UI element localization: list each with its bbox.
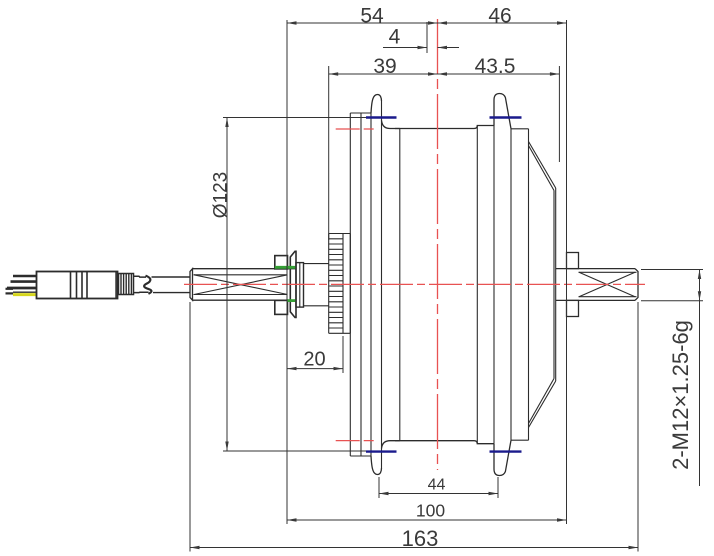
right flange rim top edge <box>511 128 529 130</box>
drum top edge <box>395 128 474 130</box>
dimension line 46 <box>438 22 567 24</box>
extension line 4 tick <box>426 22 428 53</box>
drum right step top <box>474 126 494 129</box>
right axle thread cross 1 <box>579 272 635 296</box>
spoke hole mark top-right blue <box>490 116 522 118</box>
freewheel sprocket right edge <box>349 234 351 334</box>
connector right step <box>115 272 117 298</box>
arrowheads 4 <box>418 46 428 49</box>
drum left shoulder bottom <box>382 441 400 449</box>
extension line 163 left <box>189 302 191 552</box>
right flange disc line 2 <box>510 129 512 440</box>
dimension line 163 <box>190 547 638 549</box>
extension line M12 bottom <box>641 300 703 302</box>
left flange disc line 2 <box>360 113 362 456</box>
right flange right face <box>528 129 530 440</box>
left axle thread cross 1 <box>194 275 288 295</box>
arrowheads 54 <box>287 21 297 24</box>
drum right step bottom <box>474 441 494 444</box>
side cover cylinder inner <box>553 191 555 379</box>
spoke hole mark bottom-right blue <box>490 450 522 452</box>
dimension line 54 <box>287 22 438 24</box>
spoke hole mark bottom-left blue <box>366 450 397 452</box>
left axle end face <box>190 269 193 301</box>
arrowheads diameter 123 <box>225 118 228 128</box>
side cover cone bottom slant outer <box>529 381 556 428</box>
wire black 1 <box>13 275 37 278</box>
connector rib line 4 <box>86 272 88 299</box>
right hub step block bottom <box>567 300 579 316</box>
dimension line M12 <box>699 270 701 487</box>
right axle thread minor top <box>579 271 637 273</box>
svg-text:100: 100 <box>416 501 445 521</box>
spoke hole mark top-left blue <box>366 116 397 118</box>
extension line 39 <box>328 66 330 240</box>
wire yellow <box>13 293 37 296</box>
connector rib line 1 <box>70 272 72 299</box>
left flange tab right edge <box>381 101 383 468</box>
wire black 3 <box>7 287 37 290</box>
wire black 4 top edge <box>13 291 37 293</box>
washer inner line <box>299 263 301 308</box>
svg-text:43.5: 43.5 <box>475 55 516 78</box>
dimension line diameter 123 <box>226 118 228 452</box>
right hub step block top <box>567 253 579 269</box>
freewheel sprocket left edge <box>328 234 330 334</box>
extension line diameter top <box>223 117 366 119</box>
right flange tab top <box>494 94 511 129</box>
dimension line 39 <box>329 73 438 75</box>
side cover cone top slant outer <box>529 142 556 189</box>
arrowheads M12 <box>698 270 701 280</box>
drum right interior wall <box>476 126 478 444</box>
dimension line 43.5 <box>438 73 560 75</box>
extension line diameter bottom <box>223 450 366 452</box>
right flange tab bottom <box>494 440 511 475</box>
extension line left 54/100/20 <box>286 20 288 524</box>
left flange tab left edge <box>370 113 372 456</box>
wire stub 2 <box>6 292 14 294</box>
left flange rim top edge <box>350 112 371 114</box>
arrowheads 163 <box>190 546 200 549</box>
side cover cylinder outer <box>555 188 557 381</box>
extension line 44 left <box>378 477 380 498</box>
right axle outer bottom <box>556 299 635 301</box>
arrowheads 46 <box>438 21 448 24</box>
wire stub 1 <box>6 288 14 290</box>
side cover cone top slant inner <box>529 146 555 191</box>
locknut small square top <box>275 256 288 269</box>
right axle thread minor bottom <box>579 296 637 298</box>
spacer top line <box>304 263 329 265</box>
extension line right 46/100 <box>566 20 568 524</box>
dimension line 100 <box>287 519 567 521</box>
right flange rim bottom edge <box>511 439 529 441</box>
washer block <box>296 263 304 308</box>
left axle outer top <box>193 268 297 270</box>
extension line 44 right <box>497 477 499 498</box>
left flange rim bottom edge <box>350 455 371 457</box>
svg-text:54: 54 <box>360 5 384 28</box>
arrowheads 39 <box>329 72 339 75</box>
svg-text:4: 4 <box>389 26 401 49</box>
freewheel bottom edge <box>329 332 351 334</box>
horizontal centerline <box>184 283 645 285</box>
left axle thread minor top <box>194 274 288 276</box>
locknut small square bottom <box>275 300 288 314</box>
right flange disc line 1 <box>493 126 495 444</box>
cable neck <box>134 276 149 292</box>
drum left shoulder top <box>382 121 400 129</box>
svg-text:46: 46 <box>488 5 511 28</box>
freewheel top edge <box>329 233 351 235</box>
side cover cone bottom slant inner <box>529 379 555 424</box>
strain relief ribs <box>119 274 134 295</box>
extension line 20 right <box>342 336 344 373</box>
freewheel teeth <box>329 239 343 328</box>
svg-text:2-M12×1.25-6g: 2-M12×1.25-6g <box>668 320 693 470</box>
spoke circle mark top-left red <box>336 128 380 130</box>
arrowheads 20 <box>287 367 297 370</box>
dimension line 4 right leader <box>438 47 460 49</box>
left flange disc line 1 <box>349 113 351 456</box>
svg-text:Ø123: Ø123 <box>211 172 232 218</box>
arrowheads 100 <box>287 518 297 521</box>
svg-text:39: 39 <box>373 55 396 78</box>
arrowheads 43.5 <box>438 72 448 75</box>
right axle thread cross 2 <box>579 272 635 296</box>
arrowheads 44 <box>379 492 389 495</box>
extension line 43.5 <box>558 66 560 162</box>
spacer bottom line <box>304 305 329 307</box>
left axle thread cross 2 <box>194 275 288 295</box>
locknut flange body <box>290 251 296 317</box>
cable top line <box>152 276 190 278</box>
left flange spoke tab top <box>371 95 382 113</box>
cable break squiggle <box>144 276 151 294</box>
left axle outer bottom <box>193 299 297 301</box>
extension line M12 top <box>641 269 703 271</box>
dimension line 4 left leader <box>383 47 427 49</box>
washer green mark top <box>275 266 296 269</box>
drum left interior wall <box>399 129 401 441</box>
connector rib line 2 <box>76 272 78 299</box>
freewheel tooth root line <box>342 234 344 334</box>
drum bottom edge <box>395 440 474 442</box>
connector barrel <box>37 272 118 299</box>
washer green mark bottom <box>287 299 296 302</box>
left flange spoke tab bottom <box>371 456 382 474</box>
spoke circle mark bottom-left red <box>336 440 380 442</box>
right axle outer top <box>556 268 635 270</box>
cable bottom line <box>153 292 190 294</box>
dimension line 44 <box>379 493 498 495</box>
left axle thread minor bottom <box>194 294 288 296</box>
right axle end face <box>635 269 638 301</box>
dimension line 20 <box>287 368 343 370</box>
connector rib line 3 <box>81 272 83 299</box>
svg-text:20: 20 <box>303 349 325 371</box>
svg-text:163: 163 <box>402 526 439 551</box>
svg-text:44: 44 <box>428 477 446 494</box>
vertical centerline <box>437 19 439 470</box>
wire black 2 <box>11 280 37 283</box>
extension line 163 right <box>637 302 639 552</box>
